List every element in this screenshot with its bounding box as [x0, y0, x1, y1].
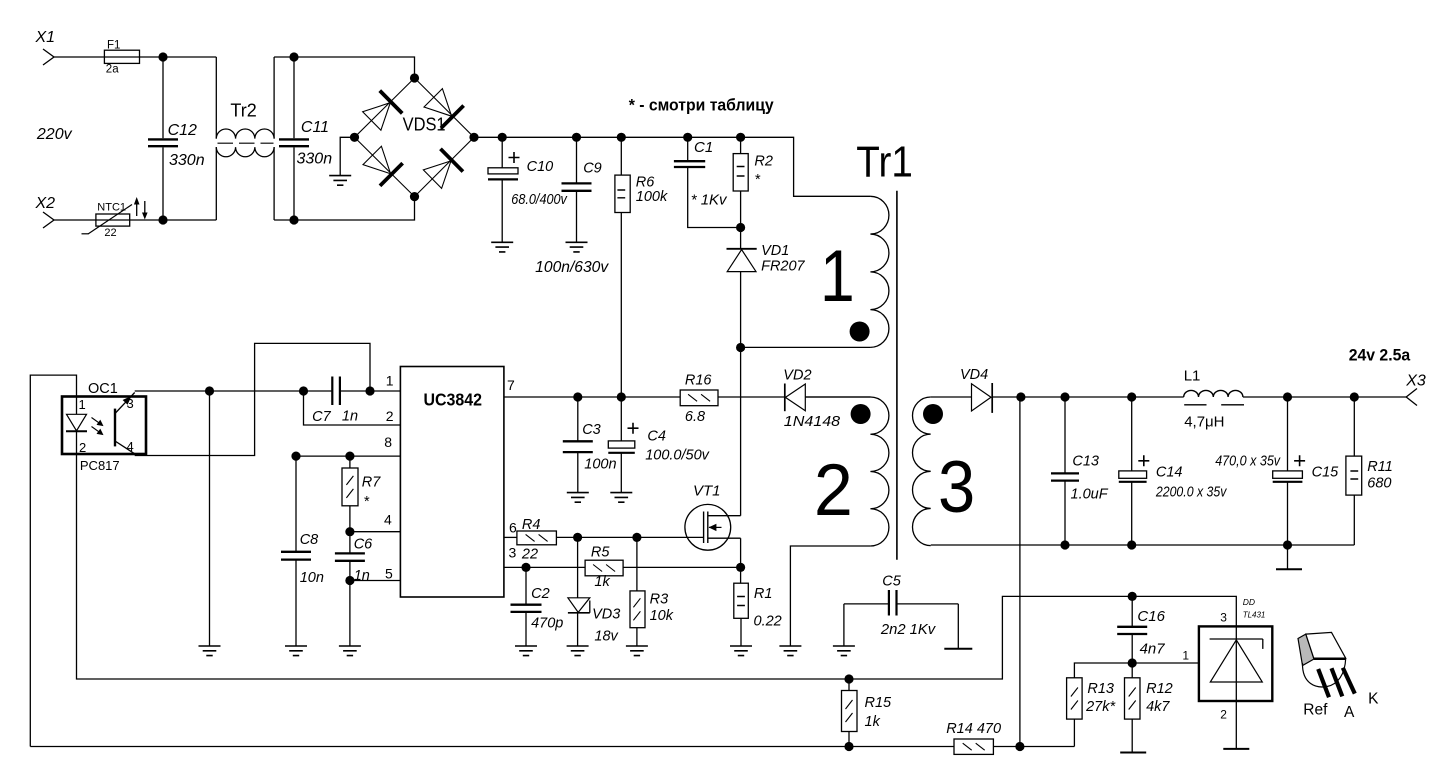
Tr1 winding 2	[805, 397, 889, 546]
zener VD3	[568, 537, 620, 646]
svg-text:2n2 1Kv: 2n2 1Kv	[880, 622, 936, 638]
capacitor C15	[1273, 397, 1339, 545]
svg-text:X2: X2	[35, 195, 56, 212]
resistor R5	[585, 545, 623, 591]
junction	[350, 133, 359, 142]
wire	[340, 390, 401, 392]
wire	[556, 536, 703, 538]
ground	[491, 242, 513, 252]
svg-text:R12: R12	[1146, 681, 1173, 697]
svg-text:22: 22	[521, 547, 538, 563]
wire	[504, 536, 517, 538]
svg-text:4: 4	[384, 512, 392, 528]
ground	[515, 646, 537, 656]
svg-text:C14: C14	[1156, 465, 1183, 481]
svg-text:7: 7	[507, 377, 515, 393]
wire	[957, 604, 959, 648]
junction	[736, 563, 745, 572]
IC UC3842	[384, 367, 517, 598]
svg-text:1: 1	[386, 373, 394, 389]
ground	[339, 646, 361, 656]
diode VD1	[727, 228, 806, 348]
ground	[610, 493, 632, 503]
wire	[135, 343, 370, 455]
svg-text:OC1: OC1	[88, 381, 118, 397]
junction	[289, 52, 298, 61]
ground	[199, 646, 221, 656]
svg-text:5: 5	[385, 566, 393, 582]
svg-text:R1: R1	[754, 586, 773, 602]
capacitor C16	[1117, 596, 1165, 663]
svg-text:2: 2	[1220, 708, 1227, 722]
svg-text:C7: C7	[312, 409, 331, 425]
wire	[843, 604, 845, 646]
junction	[469, 133, 478, 142]
svg-text:24v 2.5a: 24v 2.5a	[1349, 347, 1411, 365]
svg-text:VD2: VD2	[783, 368, 811, 384]
svg-text:C3: C3	[582, 422, 601, 438]
svg-text:470,0 x 35v: 470,0 x 35v	[1215, 454, 1281, 470]
junction	[299, 386, 308, 395]
resistor R11	[1346, 397, 1393, 545]
svg-text:F1: F1	[107, 40, 120, 52]
svg-text:Ref: Ref	[1303, 702, 1328, 719]
thermistor NTC1	[82, 197, 148, 239]
junction	[205, 386, 214, 395]
optocoupler OC1	[62, 381, 146, 473]
junction	[1128, 592, 1137, 601]
transistor VT1	[685, 483, 741, 551]
svg-text:R4: R4	[522, 517, 541, 533]
svg-text:VD4: VD4	[960, 367, 988, 383]
resistor R7	[342, 456, 381, 532]
transformer Tr1 label	[856, 138, 913, 187]
svg-text:R11: R11	[1367, 459, 1393, 475]
wire	[623, 566, 741, 568]
label 220v	[36, 126, 73, 143]
wire	[740, 538, 742, 567]
svg-text:4k7: 4k7	[1146, 699, 1170, 715]
wire	[504, 396, 680, 398]
wire	[304, 391, 401, 425]
ground	[730, 646, 752, 656]
junction	[844, 674, 853, 683]
svg-text:VDS1: VDS1	[403, 115, 446, 135]
ground	[779, 646, 801, 656]
ground	[1276, 545, 1302, 569]
resistor R16	[680, 373, 718, 426]
svg-text:4n7: 4n7	[1140, 641, 1166, 658]
junction	[345, 576, 354, 585]
svg-text:1k: 1k	[865, 714, 881, 730]
junction	[683, 133, 692, 142]
junction	[498, 133, 507, 142]
svg-text:C11: C11	[301, 119, 329, 136]
junction	[1127, 540, 1136, 549]
svg-text:C6: C6	[354, 537, 373, 553]
terminal X2	[35, 195, 56, 228]
capacitor C10	[488, 137, 568, 242]
junction	[1283, 540, 1292, 549]
resistor R4	[517, 517, 557, 563]
junction	[158, 52, 167, 61]
fuse F1	[104, 40, 139, 76]
resistor R2	[733, 137, 773, 227]
svg-text:680: 680	[1367, 476, 1391, 492]
junction	[345, 527, 354, 536]
junction	[1127, 392, 1136, 401]
wire	[296, 455, 400, 457]
wire	[350, 531, 401, 533]
svg-text:R14 470: R14 470	[946, 721, 1001, 737]
svg-text:3: 3	[1220, 611, 1227, 625]
terminal X1	[35, 29, 56, 65]
ground	[566, 242, 588, 252]
junction	[1016, 392, 1025, 401]
inductor L1	[1184, 368, 1244, 431]
junction	[617, 133, 626, 142]
svg-text:2200.0 x 35v: 2200.0 x 35v	[1155, 485, 1227, 501]
resistor R13	[1067, 663, 1199, 747]
ground	[567, 646, 589, 656]
Tr1 core	[896, 191, 898, 560]
svg-text:PC817: PC817	[80, 458, 120, 473]
capacitor C4	[608, 397, 709, 493]
resistor R14	[946, 721, 1001, 754]
diode VD4	[960, 367, 992, 413]
svg-text:4: 4	[127, 439, 134, 454]
svg-text:C13: C13	[1072, 454, 1099, 470]
junction	[345, 452, 354, 461]
capacitor C11	[279, 57, 332, 220]
svg-text:C9: C9	[583, 161, 602, 177]
svg-text:10n: 10n	[300, 570, 324, 586]
svg-text:0.22: 0.22	[754, 614, 782, 630]
label 24v 2.5a	[1349, 347, 1411, 365]
wire	[790, 546, 870, 646]
junction	[1015, 742, 1024, 751]
svg-text:X1: X1	[35, 29, 56, 46]
svg-text:330n: 330n	[169, 152, 205, 169]
junction	[736, 343, 745, 352]
svg-text:330n: 330n	[297, 151, 333, 168]
svg-text:1n: 1n	[342, 409, 358, 425]
capacitor C1	[674, 137, 741, 227]
svg-text:VD1: VD1	[761, 243, 789, 259]
junction	[632, 533, 641, 542]
Tr1 winding 3	[912, 397, 975, 546]
common-mode choke Tr2	[216, 57, 274, 220]
terminal X3	[1405, 373, 1426, 406]
svg-text:* - смотри таблицу: * - смотри таблицу	[629, 97, 775, 115]
resistor R15	[842, 679, 893, 747]
label 470,0 x 35v	[1215, 454, 1281, 470]
wire	[805, 396, 870, 398]
svg-text:C10: C10	[527, 159, 554, 175]
wire	[274, 57, 414, 78]
wire	[135, 390, 333, 392]
ground	[944, 648, 972, 650]
junction	[521, 563, 530, 572]
svg-text:2a: 2a	[106, 64, 119, 76]
svg-text:10k: 10k	[650, 608, 674, 624]
junction	[410, 192, 419, 201]
svg-text:1: 1	[1182, 649, 1189, 663]
resistor R12	[1120, 663, 1173, 753]
wire	[349, 581, 351, 647]
svg-text:8: 8	[384, 434, 392, 450]
junction	[572, 133, 581, 142]
wire	[718, 396, 785, 398]
svg-text:Tr1: Tr1	[856, 138, 913, 187]
wire	[30, 746, 1074, 748]
svg-text:R2: R2	[754, 153, 773, 169]
svg-text:4,7μH: 4,7μH	[1184, 414, 1224, 431]
diode VD2	[783, 368, 840, 431]
svg-text:3: 3	[127, 396, 134, 411]
svg-text:UC3842: UC3842	[424, 390, 483, 410]
capacitor C5	[844, 574, 958, 639]
capacitor C3	[563, 397, 617, 493]
svg-text:C12: C12	[168, 122, 197, 139]
bridge rectifier VDS1	[355, 78, 475, 197]
svg-text:R3: R3	[650, 592, 669, 608]
capacitor C14	[1119, 397, 1227, 545]
capacitor C6	[335, 532, 373, 584]
svg-text:6: 6	[509, 520, 517, 536]
svg-text:R7: R7	[362, 475, 381, 491]
junction	[410, 73, 419, 82]
shunt regulator DD TL431	[1182, 597, 1272, 749]
wire	[54, 56, 216, 58]
svg-text:100n: 100n	[584, 457, 616, 473]
capacitor C8	[281, 456, 324, 646]
junction	[844, 742, 853, 751]
junction	[1350, 392, 1359, 401]
resistor R3	[630, 537, 674, 646]
capacitor C12	[148, 57, 205, 220]
svg-text:VT1: VT1	[693, 483, 721, 500]
svg-text:FR207: FR207	[761, 259, 805, 275]
note: see table	[629, 97, 775, 115]
junction	[573, 533, 582, 542]
svg-text:100.0/50v: 100.0/50v	[645, 448, 709, 464]
svg-text:R5: R5	[591, 545, 610, 561]
junction	[617, 392, 626, 401]
ground	[833, 646, 855, 656]
junction	[573, 392, 582, 401]
svg-text:1N4148: 1N4148	[784, 414, 840, 430]
wire	[77, 454, 1237, 679]
wire	[504, 566, 585, 568]
junction	[289, 215, 298, 224]
wire	[340, 137, 354, 175]
svg-text:2: 2	[79, 440, 86, 455]
svg-text:2: 2	[386, 408, 394, 424]
wire	[992, 396, 1183, 398]
capacitor C9	[535, 137, 609, 276]
svg-text:27k*: 27k*	[1085, 699, 1116, 715]
svg-text:470p: 470p	[531, 616, 563, 632]
wire	[54, 219, 216, 221]
svg-text:1n: 1n	[354, 568, 370, 584]
svg-text:22: 22	[104, 227, 116, 239]
svg-text:18v: 18v	[594, 629, 618, 645]
junction	[1060, 540, 1069, 549]
svg-text:1k: 1k	[594, 574, 610, 590]
svg-text:100n/630v: 100n/630v	[535, 259, 609, 276]
ground	[285, 646, 307, 656]
svg-text:C5: C5	[882, 574, 901, 590]
svg-text:68.0/400v: 68.0/400v	[511, 192, 567, 208]
junction	[291, 452, 300, 461]
svg-text:R15: R15	[865, 695, 893, 711]
junction	[736, 223, 745, 232]
svg-text:2: 2	[814, 448, 853, 531]
svg-text:X3: X3	[1405, 373, 1426, 390]
svg-text:L1: L1	[1184, 368, 1201, 385]
ground	[567, 493, 589, 503]
wire	[474, 137, 870, 196]
svg-text:VD3: VD3	[592, 607, 620, 623]
junction	[1128, 658, 1137, 667]
junction	[736, 133, 745, 142]
svg-text:C4: C4	[647, 429, 666, 445]
svg-text:C16: C16	[1137, 608, 1165, 625]
junction	[158, 215, 167, 224]
svg-text:C8: C8	[300, 532, 319, 548]
svg-text:DD: DD	[1243, 597, 1255, 607]
svg-text:K: K	[1368, 691, 1379, 708]
capacitor C13	[1051, 397, 1109, 545]
svg-text:C1: C1	[694, 139, 713, 156]
junction	[1060, 392, 1069, 401]
wire	[931, 544, 1355, 546]
resistor R6	[615, 137, 668, 397]
svg-text:6.8: 6.8	[685, 409, 705, 425]
wire	[30, 375, 76, 746]
svg-text:* 1Kv: * 1Kv	[691, 192, 728, 209]
resistor R1	[734, 567, 782, 646]
ground	[626, 646, 648, 656]
wire	[1243, 396, 1406, 398]
svg-text:R13: R13	[1087, 681, 1114, 697]
Tr1 winding 1	[741, 196, 889, 347]
svg-text:NTC1: NTC1	[97, 202, 126, 214]
wire	[274, 197, 414, 220]
wire	[740, 348, 742, 516]
svg-text:TL431: TL431	[1243, 611, 1266, 620]
svg-text:C15: C15	[1312, 465, 1340, 481]
svg-text:3: 3	[938, 445, 975, 528]
svg-text:1: 1	[79, 397, 86, 412]
junction	[365, 386, 374, 395]
svg-text:100k: 100k	[636, 189, 668, 205]
capacitor C2	[511, 567, 564, 646]
svg-text:220v: 220v	[36, 126, 73, 143]
wire	[1019, 397, 1021, 747]
svg-text:3: 3	[509, 545, 517, 561]
svg-text:C2: C2	[531, 586, 550, 602]
svg-text:R16: R16	[685, 373, 713, 389]
svg-text:A: A	[1344, 704, 1355, 721]
svg-text:1: 1	[820, 234, 855, 317]
TO-92 package drawing	[1298, 632, 1379, 721]
wire	[209, 391, 211, 646]
capacitor C7	[312, 377, 358, 426]
wire	[350, 580, 401, 582]
junction	[1283, 392, 1292, 401]
svg-text:Tr2: Tr2	[230, 101, 256, 121]
ground	[329, 176, 351, 186]
svg-text:1.0uF: 1.0uF	[1071, 487, 1109, 503]
